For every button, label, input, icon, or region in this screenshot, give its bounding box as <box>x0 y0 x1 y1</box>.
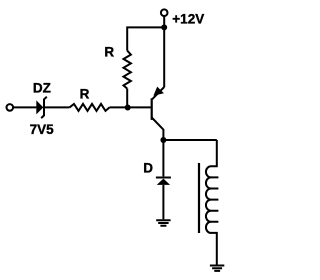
junction node collector <box>160 137 166 143</box>
wire collector junction down to diode D <box>162 140 164 176</box>
ground 1 (under diode) <box>156 220 170 225</box>
junction node base <box>125 105 131 111</box>
wire collector junction to coil top <box>163 139 216 141</box>
svg-text:+12V: +12V <box>172 11 204 26</box>
transistor Q1 emitter diagonal <box>152 87 164 99</box>
zener diode DZ bent cathode bar <box>41 97 47 118</box>
input terminal <box>7 104 14 111</box>
ground 2 (under coil) <box>210 266 224 271</box>
svg-text:D: D <box>143 161 153 176</box>
inductor L1 core bar <box>198 163 200 233</box>
transistor Q1 collector diagonal <box>152 118 164 141</box>
wire resistor R1 to transistor base <box>110 106 151 108</box>
wire +12V down to transistor emitter <box>163 16 165 87</box>
wire input to zener <box>13 106 36 108</box>
resistor R2 (vertical zigzag) <box>124 51 131 89</box>
svg-text:DZ: DZ <box>33 81 51 96</box>
wire zener to resistor R1 <box>44 106 70 108</box>
resistor R1 (horizontal zigzag) <box>70 104 110 111</box>
diode D cathode bar <box>156 177 171 179</box>
diode D triangle (pointing up) <box>157 179 170 185</box>
wire diode D to ground <box>162 185 164 219</box>
+12V terminal circle <box>161 9 168 16</box>
svg-text:R: R <box>104 44 114 59</box>
transistor Q1 emitter arrow (PNP) <box>153 87 164 96</box>
zener diode DZ triangle <box>36 100 43 114</box>
junction node +12V rail <box>161 24 167 30</box>
inductor L1 coil (6 turns) <box>206 140 218 265</box>
wire R2 bottom to base junction <box>126 89 128 108</box>
transistor Q1 base bar <box>151 98 153 120</box>
svg-text:7V5: 7V5 <box>30 122 55 137</box>
svg-text:R: R <box>80 87 90 102</box>
wire R2 top to +12V rail <box>127 27 164 50</box>
